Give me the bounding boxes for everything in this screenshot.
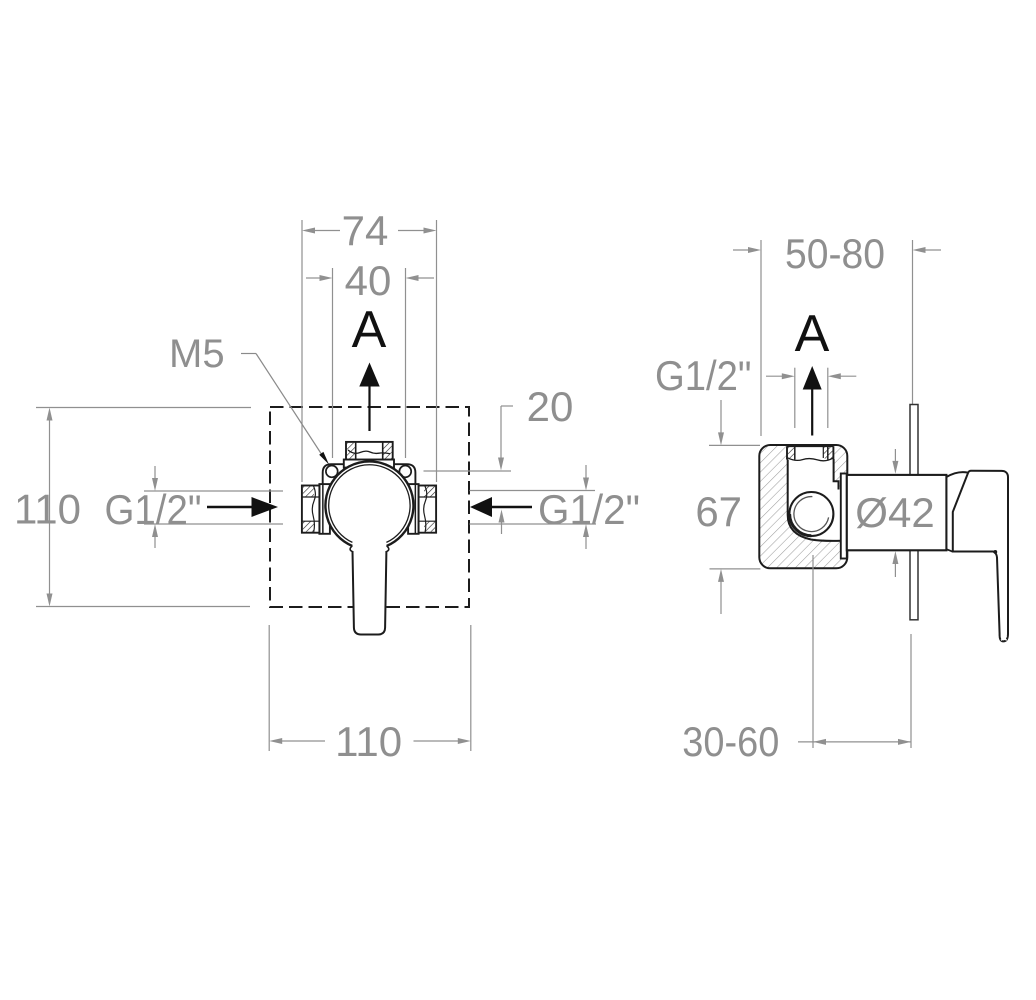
node mounting plate [323, 464, 416, 486]
node dim diameter 42 arrows [892, 449, 898, 577]
node adapter dome [946, 472, 967, 477]
node right nut [408, 484, 419, 534]
node lever tip highlight [1001, 636, 1007, 640]
node dim 40 extension lines [333, 268, 406, 458]
wire plate edge through right nut [414, 484, 416, 533]
node circle end caps [350, 546, 352, 552]
node pipe circle right view [789, 492, 833, 536]
node cartridge flange [841, 474, 847, 559]
node dim 30-60 dimension line [798, 739, 911, 745]
svg-text:Ø42: Ø42 [855, 489, 934, 536]
node dim 20 bracket [424, 406, 514, 534]
node outlet flange [344, 460, 394, 468]
node section arrow A right [803, 366, 822, 436]
node dim G1/2 arrows right view [766, 373, 856, 379]
svg-text:A: A [795, 305, 830, 363]
node dim 74 dimension line [302, 228, 437, 234]
node dim 110 bottom extension lines [269, 625, 471, 751]
node handle hub and lever [953, 471, 1008, 642]
node outlet port top [346, 442, 393, 460]
node body cavity [788, 452, 841, 541]
node dim 67 arrows [718, 400, 724, 614]
wire M5 leader [241, 354, 324, 459]
svg-text:74: 74 [342, 207, 389, 254]
node right pipe [419, 486, 437, 533]
node trim plate [910, 405, 918, 620]
node G1/2 right pipe lines [470, 491, 597, 525]
node inlet arrow left (black) [207, 497, 278, 517]
node lever joint dot [993, 550, 997, 554]
node handle lever stem [353, 551, 387, 635]
svg-text:M5: M5 [169, 332, 225, 376]
node outlet port right view [787, 446, 833, 461]
node dim 110 bottom dimension line [269, 738, 471, 744]
node G1/2 left pipe lines [144, 491, 283, 524]
svg-text:110: 110 [335, 718, 402, 765]
node dim 110 vertical dimension line [47, 408, 53, 607]
svg-text:G1/2": G1/2" [538, 486, 640, 533]
svg-text:40: 40 [345, 257, 392, 304]
node left pipe [302, 486, 320, 533]
wire dashed installation box [270, 407, 469, 607]
node dim 110 vertical extension lines [36, 408, 251, 607]
node dim 30-60 extension lines [813, 555, 911, 748]
node dim 40 dimension line [306, 275, 434, 281]
node screw hole right [399, 466, 411, 478]
node wall section hatched [759, 445, 847, 568]
node screw hole left [326, 466, 338, 478]
svg-text:G1/2": G1/2" [655, 352, 752, 399]
node dim G1/2 extension lines right view [795, 368, 828, 428]
svg-text:30-60: 30-60 [682, 718, 779, 765]
svg-text:50-80: 50-80 [785, 230, 885, 277]
svg-text:110: 110 [14, 486, 81, 533]
svg-text:67: 67 [695, 488, 742, 535]
node dim 67 extension lines [709, 445, 760, 569]
svg-text:A: A [352, 301, 387, 359]
node left nut [319, 484, 330, 534]
node dim 50-80 extension lines [761, 240, 913, 436]
node dim 50-80 dimension line [733, 247, 941, 253]
node pipe circle inner arc [794, 497, 829, 532]
wire adapter step [946, 549, 952, 552]
svg-text:20: 20 [527, 383, 574, 430]
node G1/2 left small arrows [152, 466, 158, 548]
node cartridge circle inner [329, 465, 410, 543]
node cartridge cylinder [847, 475, 947, 550]
svg-text:G1/2": G1/2" [105, 486, 202, 533]
node cartridge circle outer [325, 461, 413, 546]
node dim 74 extension lines [302, 220, 437, 482]
node section arrow A left [359, 363, 379, 432]
node inlet arrow right (black) [470, 497, 532, 517]
node G1/2 right small arrows [583, 465, 589, 549]
wire plate edge through left nut [322, 484, 324, 533]
